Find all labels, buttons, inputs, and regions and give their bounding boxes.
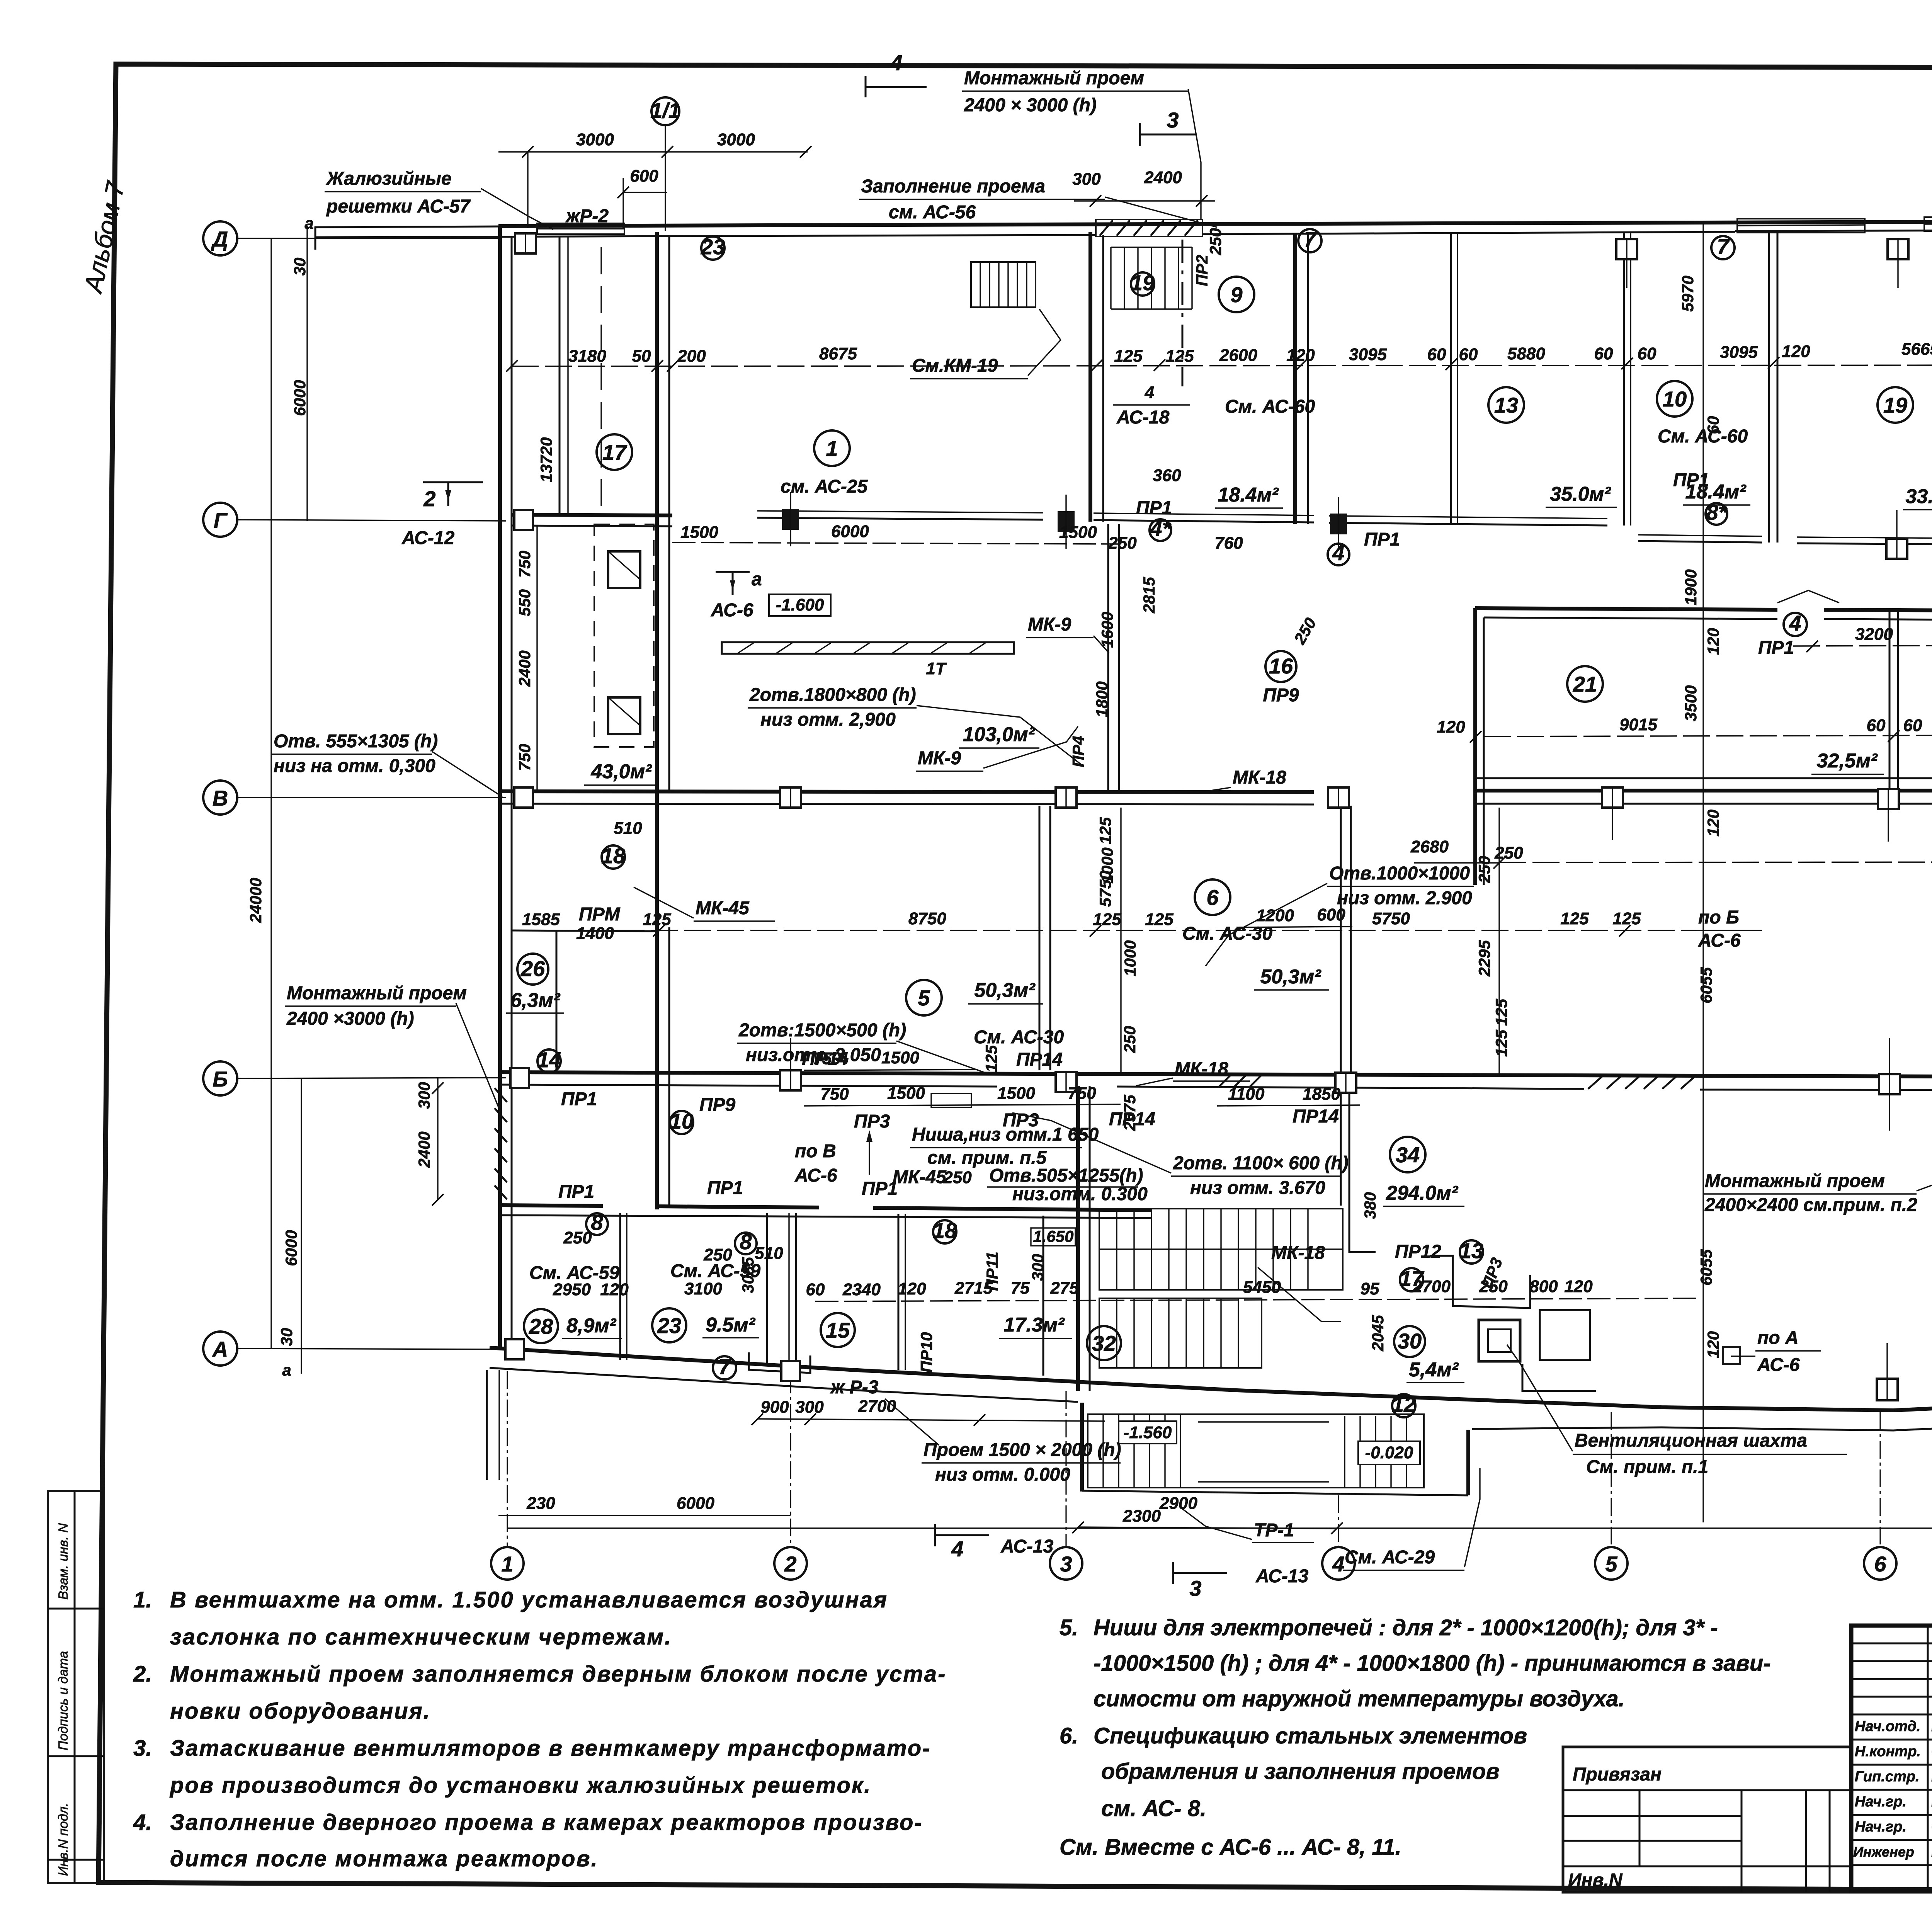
svg-text:АС-13: АС-13 bbox=[1000, 1536, 1054, 1557]
south entrance annex walls bbox=[487, 1370, 1468, 1495]
svg-text:ПРМ: ПРМ bbox=[579, 904, 621, 925]
отв 1000х1000 annotation bbox=[1206, 863, 1474, 966]
svg-text:600: 600 bbox=[630, 167, 658, 185]
svg-text:5: 5 bbox=[1605, 1552, 1617, 1576]
svg-text:13720: 13720 bbox=[537, 437, 555, 483]
21 band dimension chain 3200 2500 4000 bbox=[1793, 621, 1932, 652]
svg-text:низ отм. 2.900: низ отм. 2.900 bbox=[1337, 888, 1472, 908]
small rooms band wall y3130 bbox=[500, 1205, 1151, 1218]
svg-text:12: 12 bbox=[1392, 1392, 1416, 1417]
section mark а АС-6 bbox=[711, 569, 762, 621]
svg-text:5450: 5450 bbox=[1243, 1278, 1281, 1297]
svg-text:19: 19 bbox=[1131, 270, 1155, 295]
svg-text:17: 17 bbox=[602, 440, 628, 464]
svg-text:6,3м²: 6,3м² bbox=[510, 989, 561, 1012]
svg-text:ПР11: ПР11 bbox=[983, 1252, 1001, 1291]
svg-text:3000: 3000 bbox=[576, 130, 614, 149]
svg-text:Проем 1500 × 2000 (h): Проем 1500 × 2000 (h) bbox=[923, 1440, 1121, 1460]
svg-text:3100: 3100 bbox=[684, 1279, 722, 1298]
chain 1100 1850 bbox=[1217, 1085, 1360, 1106]
room circle 6 bbox=[1182, 879, 1329, 990]
svg-text:60: 60 bbox=[1903, 716, 1922, 735]
svg-text:275: 275 bbox=[1050, 1279, 1079, 1298]
svg-text:а: а bbox=[752, 569, 762, 590]
opening circle 18b bbox=[917, 1218, 1001, 1372]
section mark 4 top bbox=[866, 51, 927, 97]
opening circle 14 bbox=[537, 1048, 597, 1109]
area labels 21 band bbox=[1811, 745, 1932, 774]
svg-text:2отв:1500×500 (h): 2отв:1500×500 (h) bbox=[738, 1020, 906, 1041]
svg-text:ПР14: ПР14 bbox=[1293, 1106, 1339, 1127]
opening circle 12 bbox=[1392, 1392, 1416, 1417]
см АС-29 annotation bbox=[1343, 1468, 1480, 1570]
svg-text:6000: 6000 bbox=[831, 522, 869, 541]
103.0 area bbox=[959, 723, 1039, 748]
svg-text:Cм. прим. п.1: Cм. прим. п.1 bbox=[1586, 1457, 1708, 1477]
svg-text:1.: 1. bbox=[133, 1587, 152, 1612]
svg-text:103,0м²: 103,0м² bbox=[963, 723, 1036, 746]
svg-text:а: а bbox=[282, 1361, 291, 1379]
svg-text:3: 3 bbox=[1189, 1576, 1201, 1600]
проем 1500х2000 annotation bbox=[922, 1440, 1121, 1485]
монтажный проем west annotation bbox=[285, 983, 499, 1109]
wall x2880 Г-В bbox=[1108, 524, 1119, 792]
svg-text:2340: 2340 bbox=[842, 1280, 881, 1299]
svg-text:21: 21 bbox=[1573, 672, 1597, 696]
svg-text:ПР2: ПР2 bbox=[1193, 255, 1211, 286]
svg-text:9.5м²: 9.5м² bbox=[706, 1314, 756, 1336]
svg-text:125: 125 bbox=[1492, 1029, 1510, 1057]
МК-45 corridor annotation bbox=[579, 887, 775, 925]
svg-text:2295: 2295 bbox=[1475, 940, 1493, 977]
svg-text:ПР14: ПР14 bbox=[802, 1049, 848, 1069]
svg-text:8: 8 bbox=[740, 1230, 752, 1254]
svg-text:Cм. АС-30: Cм. АС-30 bbox=[974, 1027, 1064, 1048]
svg-text:60: 60 bbox=[1459, 345, 1478, 364]
svg-text:1500: 1500 bbox=[881, 1048, 919, 1067]
svg-text:4: 4 bbox=[890, 51, 902, 75]
svg-text:МК-9: МК-9 bbox=[918, 748, 961, 769]
title block texts bbox=[1853, 1637, 1932, 1886]
svg-text:2400: 2400 bbox=[1144, 168, 1182, 187]
svg-text:Cм. АС-60: Cм. АС-60 bbox=[1658, 426, 1748, 447]
svg-text:Cм. АС-59: Cм. АС-59 bbox=[529, 1263, 619, 1283]
room circle 19 bbox=[1878, 387, 1913, 423]
svg-text:3500: 3500 bbox=[1682, 685, 1700, 721]
svg-text:2: 2 bbox=[423, 486, 435, 511]
svg-text:обрамления и заполнения про: обрамления и заполнения проемов bbox=[1101, 1759, 1500, 1784]
svg-text:2400 × 3000 (h): 2400 × 3000 (h) bbox=[964, 95, 1097, 116]
svg-text:7: 7 bbox=[1717, 234, 1730, 259]
svg-text:Привязан: Привязан bbox=[1573, 1764, 1662, 1785]
svg-text:ПР14: ПР14 bbox=[1016, 1049, 1063, 1070]
svg-text:решетки АС-57: решетки АС-57 bbox=[326, 196, 471, 217]
svg-text:32,5м²: 32,5м² bbox=[1817, 750, 1878, 772]
wall x3470 В-Б bbox=[1341, 806, 1351, 1073]
svg-text:Инв.N подл.: Инв.N подл. bbox=[56, 1803, 71, 1876]
svg-text:60: 60 bbox=[806, 1280, 825, 1299]
svg-text:симости от наружной темпера: симости от наружной температуры воздуха. bbox=[1094, 1686, 1625, 1711]
svg-text:1600: 1600 bbox=[1098, 612, 1116, 648]
top 3000 chain bbox=[498, 130, 811, 228]
вентиляционная шахта annotation bbox=[1507, 1345, 1847, 1477]
chain 900 300 2700 bbox=[752, 1397, 1105, 1426]
svg-text:6: 6 bbox=[1874, 1552, 1886, 1576]
svg-text:300: 300 bbox=[415, 1082, 433, 1109]
svg-text:низ отм. 2,900: низ отм. 2,900 bbox=[760, 709, 896, 730]
ниша annotation bbox=[910, 1124, 1099, 1168]
dims 750 1500 left mid bbox=[804, 1045, 1000, 1072]
svg-text:120: 120 bbox=[1704, 810, 1722, 837]
svg-text:См. АС-60: См. АС-60 bbox=[1225, 396, 1315, 417]
svg-text:120: 120 bbox=[898, 1279, 926, 1298]
axis 1/1 circle bbox=[650, 97, 680, 231]
svg-text:ПР1: ПР1 bbox=[561, 1089, 597, 1109]
svg-text:низ на отм. 0,300: низ на отм. 0,300 bbox=[274, 756, 435, 776]
level box 1.650 bbox=[1031, 1227, 1075, 1246]
svg-text:3200: 3200 bbox=[1855, 625, 1893, 644]
wall stairs right x3368 bbox=[1295, 233, 1308, 524]
partition 28|23 bbox=[620, 1213, 627, 1360]
svg-text:5970: 5970 bbox=[1679, 276, 1697, 311]
svg-text:23: 23 bbox=[657, 1313, 681, 1338]
vertical dim chain x4408 bbox=[1679, 224, 1722, 1522]
svg-text:250: 250 bbox=[1475, 856, 1493, 883]
svg-text:Монтажный проем: Монтажный проем bbox=[964, 68, 1144, 88]
svg-text:120: 120 bbox=[1704, 628, 1722, 655]
svg-text:4: 4 bbox=[1332, 1552, 1344, 1576]
svg-text:1/1: 1/1 bbox=[650, 98, 680, 122]
svg-text:250: 250 bbox=[943, 1168, 972, 1187]
svg-text:4.: 4. bbox=[133, 1810, 152, 1835]
niche chain y2860 bbox=[804, 1084, 1121, 1107]
annotation монтажный проем top bbox=[962, 68, 1201, 219]
svg-text:120: 120 bbox=[1564, 1277, 1593, 1296]
svg-text:230: 230 bbox=[526, 1494, 555, 1513]
svg-text:3095: 3095 bbox=[1720, 343, 1758, 362]
svg-text:760: 760 bbox=[1214, 534, 1243, 553]
svg-text:ПР10: ПР10 bbox=[917, 1332, 935, 1373]
svg-text:Инв.N: Инв.N bbox=[1568, 1870, 1623, 1891]
svg-text:1.650: 1.650 bbox=[1033, 1227, 1073, 1245]
svg-text:Cм. Вместе с АС-6 ... АС- 8,: Cм. Вместе с АС-6 ... АС- 8, 11. bbox=[1060, 1835, 1401, 1860]
svg-text:125: 125 bbox=[643, 910, 671, 929]
svg-text:ров производится до установ: ров производится до установки жалюзийных… bbox=[169, 1773, 871, 1798]
svg-text:1000: 1000 bbox=[1121, 940, 1139, 976]
svg-text:ТР-1: ТР-1 bbox=[1254, 1520, 1294, 1541]
svg-text:2045: 2045 bbox=[1369, 1315, 1387, 1352]
svg-text:1800: 1800 bbox=[1093, 681, 1111, 717]
svg-text:4: 4 bbox=[1332, 541, 1344, 565]
svg-text:5: 5 bbox=[918, 986, 930, 1010]
svg-text:Заполнение дверного проема: Заполнение дверного проема в камерах реа… bbox=[170, 1810, 923, 1835]
exterior stair ТР-1 treads bbox=[1088, 1414, 1424, 1488]
vertical dim chain x2901 bbox=[1096, 808, 1139, 1074]
svg-text:-1.560: -1.560 bbox=[1124, 1423, 1172, 1442]
opening circle 13 bbox=[1459, 1238, 1506, 1291]
svg-text:60: 60 bbox=[1867, 716, 1886, 735]
opening circles on room band wall bbox=[558, 1178, 898, 1264]
svg-text:60: 60 bbox=[1594, 344, 1613, 363]
svg-text:120: 120 bbox=[1437, 718, 1465, 736]
svg-text:75: 75 bbox=[1011, 1279, 1030, 1298]
svg-text:1Т: 1Т bbox=[926, 659, 947, 678]
svg-text:1000: 1000 bbox=[1098, 847, 1116, 883]
svg-text:МК-18: МК-18 bbox=[1233, 767, 1286, 788]
thin wall 13|10 x4210 bbox=[1624, 233, 1631, 526]
svg-text:ПР1: ПР1 bbox=[1136, 498, 1172, 518]
svg-text:250: 250 bbox=[1494, 844, 1523, 862]
svg-text:17.3м²: 17.3м² bbox=[1004, 1314, 1065, 1336]
svg-text:3095: 3095 bbox=[1349, 345, 1387, 364]
по Б АС-6 bbox=[1696, 907, 1762, 951]
rooms 5|6 partition bbox=[1039, 806, 1050, 1070]
top annotation жалюзийные решетки bbox=[325, 168, 553, 230]
svg-text:4*: 4* bbox=[1150, 516, 1172, 541]
svg-text:6055: 6055 bbox=[1697, 1249, 1715, 1286]
svg-text:Нач.гр.: Нач.гр. bbox=[1855, 1819, 1906, 1835]
svg-text:60: 60 bbox=[1427, 345, 1446, 364]
svg-text:2680: 2680 bbox=[1410, 837, 1449, 856]
svg-text:Отв.1000×1000: Отв.1000×1000 bbox=[1329, 863, 1470, 884]
svg-text:5665: 5665 bbox=[1901, 340, 1932, 359]
axis row circles Д Г В Б А bbox=[203, 221, 237, 1366]
svg-text:2: 2 bbox=[784, 1552, 796, 1576]
svg-text:Отв. 555×1305 (h): Отв. 555×1305 (h) bbox=[274, 731, 438, 752]
svg-text:ж Р-3: ж Р-3 bbox=[830, 1377, 879, 1398]
hatched opening in north wall (заполнение проема) bbox=[1096, 219, 1202, 236]
svg-text:750: 750 bbox=[1068, 1084, 1096, 1103]
svg-text:-1.600: -1.600 bbox=[776, 595, 824, 614]
svg-text:4: 4 bbox=[951, 1537, 963, 1561]
opening circles top wall bbox=[701, 222, 1932, 296]
svg-text:дится после монтажа реактор: дится после монтажа реакторов. bbox=[170, 1846, 599, 1871]
svg-text:А: А bbox=[212, 1337, 228, 1361]
отв 1500х500 annotation bbox=[737, 1020, 989, 1074]
chain 1500 6000 1500 below Г bbox=[672, 522, 1121, 544]
svg-text:5880: 5880 bbox=[1507, 344, 1545, 363]
see АС-60 label room 9 bbox=[1225, 396, 1315, 417]
svg-text:120: 120 bbox=[1782, 342, 1810, 361]
svg-text:120: 120 bbox=[1704, 1331, 1722, 1358]
svg-text:750: 750 bbox=[515, 744, 534, 771]
МК-18 right labels bbox=[1206, 767, 1325, 1263]
opening circle 10 corridor bbox=[670, 1095, 736, 1134]
sill opening circles and labels bbox=[1108, 459, 1932, 567]
svg-text:900: 900 bbox=[760, 1398, 789, 1417]
svg-text:16: 16 bbox=[1269, 654, 1293, 678]
room circle 10 bbox=[1657, 381, 1748, 447]
svg-text:2.: 2. bbox=[133, 1662, 152, 1687]
svg-text:10: 10 bbox=[1663, 387, 1687, 411]
по А АС-6 bbox=[1731, 1328, 1821, 1375]
room circle 28 bbox=[524, 1309, 622, 1343]
bottom dim line 66000 bbox=[507, 1502, 1932, 1528]
notes middle column bbox=[1060, 1615, 1771, 1860]
rotated dims near stairs top band bbox=[1029, 577, 1387, 1352]
svg-text:750: 750 bbox=[820, 1085, 849, 1104]
svg-text:18: 18 bbox=[601, 844, 626, 868]
svg-text:18.4м²: 18.4м² bbox=[1685, 481, 1747, 503]
ПР14 МК-18 labels top of Б bbox=[802, 1049, 1250, 1086]
bottom dim chain 230/6000 bbox=[498, 1494, 1197, 1515]
svg-text:Затаскивание вентиляторов в: Затаскивание вентиляторов в венткамеру т… bbox=[170, 1736, 931, 1761]
svg-text:6.: 6. bbox=[1060, 1723, 1078, 1748]
svg-text:АС-18: АС-18 bbox=[1116, 407, 1170, 428]
opening circle 18 bbox=[601, 819, 642, 869]
svg-text:125: 125 bbox=[1114, 347, 1143, 366]
svg-text:ПР1: ПР1 bbox=[1758, 638, 1794, 658]
svg-text:АС-6: АС-6 bbox=[1757, 1355, 1800, 1375]
svg-text:10: 10 bbox=[670, 1109, 694, 1133]
room circle 23 bbox=[652, 1308, 686, 1342]
svg-text:1500: 1500 bbox=[1059, 523, 1097, 542]
corridor wall x1700 bbox=[657, 232, 669, 1209]
svg-text:300: 300 bbox=[1072, 170, 1101, 189]
room 21 left wall bbox=[1475, 608, 1484, 885]
bottom axis circles 1-8 bbox=[491, 1547, 1932, 1580]
svg-text:250: 250 bbox=[563, 1228, 592, 1247]
room circle 30 bbox=[1394, 1326, 1464, 1383]
svg-text:1900: 1900 bbox=[1682, 569, 1700, 605]
room circle 9 bbox=[1219, 277, 1254, 312]
svg-text:34: 34 bbox=[1396, 1143, 1420, 1167]
hatched монтажный проем 2400х2400 in Б wall bbox=[1588, 1077, 1695, 1089]
ЖР-3 label bbox=[830, 1377, 939, 1445]
svg-text:ПР1: ПР1 bbox=[707, 1178, 743, 1198]
АС-12 label left bbox=[401, 528, 455, 548]
north wall axis Д bbox=[315, 220, 1932, 250]
svg-text:6000: 6000 bbox=[291, 380, 309, 416]
svg-text:новки оборудования.: новки оборудования. bbox=[170, 1699, 431, 1724]
svg-text:7: 7 bbox=[1304, 227, 1317, 252]
43.0 area bbox=[584, 760, 659, 785]
svg-text:а: а bbox=[304, 214, 313, 232]
по В АС-6 bbox=[794, 1130, 872, 1186]
svg-text:2300: 2300 bbox=[1122, 1507, 1161, 1526]
svg-text:35.0м²: 35.0м² bbox=[1550, 483, 1612, 505]
svg-text:АС-6: АС-6 bbox=[794, 1165, 837, 1186]
svg-text:510: 510 bbox=[614, 819, 642, 838]
см КМ-19 bbox=[910, 309, 1061, 379]
top dimension chain bbox=[512, 338, 1932, 366]
svg-text:Гип.стр.: Гип.стр. bbox=[1855, 1769, 1920, 1785]
tick marks top chain bbox=[506, 355, 1932, 372]
svg-text:Жалюзийные: Жалюзийные bbox=[325, 168, 452, 189]
svg-text:19: 19 bbox=[1883, 393, 1907, 417]
svg-text:Ниша,низ отм.1 650: Ниша,низ отм.1 650 bbox=[912, 1124, 1099, 1145]
left margin stamp boxes bbox=[48, 1491, 104, 1883]
svg-text:-1000×1500 (h) ; для 4* - 10: -1000×1500 (h) ; для 4* - 1000×1800 (h) … bbox=[1094, 1651, 1771, 1676]
svg-text:2700: 2700 bbox=[858, 1397, 896, 1416]
svg-text:8675: 8675 bbox=[819, 344, 857, 363]
top stairwell treads bbox=[1111, 240, 1192, 386]
room circle 32 bbox=[1087, 1326, 1121, 1360]
svg-text:Спецификацию стальных элемен: Спецификацию стальных элементов bbox=[1094, 1723, 1527, 1748]
svg-text:ПР3: ПР3 bbox=[854, 1111, 890, 1132]
svg-text:Монтажный проем: Монтажный проем bbox=[287, 983, 467, 1003]
svg-text:125: 125 bbox=[1560, 909, 1589, 928]
svg-text:750: 750 bbox=[515, 551, 534, 578]
svg-text:ПР9: ПР9 bbox=[1263, 685, 1299, 706]
svg-text:800: 800 bbox=[1529, 1277, 1558, 1296]
отв 555х1305 annotation bbox=[272, 731, 502, 797]
svg-text:3: 3 bbox=[1060, 1552, 1072, 1576]
svg-text:9: 9 bbox=[1230, 282, 1242, 307]
room circle 17 bbox=[597, 434, 632, 470]
vertical dim chain x3880 bbox=[1475, 808, 1510, 1074]
svg-text:см. АС-56: см. АС-56 bbox=[889, 202, 976, 223]
section mark 2 left bbox=[423, 482, 483, 511]
section mark 4 АС-13 bottom bbox=[935, 1524, 1054, 1561]
vertical dim 13720 bbox=[537, 437, 555, 483]
room 30/12 walls bbox=[1349, 1206, 1596, 1391]
svg-text:125: 125 bbox=[982, 1045, 1000, 1072]
svg-text:МК-45: МК-45 bbox=[893, 1167, 947, 1187]
dims 1200 600 bbox=[1236, 905, 1352, 927]
svg-text:Монтажный проем заполняется д: Монтажный проем заполняется дверным блок… bbox=[170, 1662, 946, 1687]
ladder КМ-19 bbox=[971, 262, 1036, 307]
23890 chain bbox=[1410, 837, 1932, 869]
svg-text:5,4м²: 5,4м² bbox=[1409, 1359, 1459, 1381]
svg-text:низ отм. 0.000: низ отм. 0.000 bbox=[935, 1464, 1070, 1485]
opening circles 21 band bbox=[1758, 583, 1932, 658]
svg-text:250: 250 bbox=[1121, 1026, 1139, 1053]
svg-text:ПР14: ПР14 bbox=[1109, 1109, 1155, 1129]
svg-text:В: В bbox=[213, 786, 228, 810]
svg-text:30: 30 bbox=[277, 1328, 296, 1346]
svg-text:14: 14 bbox=[537, 1048, 561, 1072]
svg-text:23: 23 bbox=[701, 235, 725, 259]
left dim chain 24000 bbox=[247, 238, 271, 1349]
svg-text:360: 360 bbox=[1153, 466, 1181, 485]
svg-text:60: 60 bbox=[1638, 344, 1656, 363]
svg-text:294.0м²: 294.0м² bbox=[1386, 1182, 1459, 1204]
svg-text:17: 17 bbox=[1400, 1266, 1425, 1291]
svg-text:125: 125 bbox=[1096, 817, 1114, 844]
svg-text:5750: 5750 bbox=[1372, 909, 1410, 928]
svg-text:Подпись и дата: Подпись и дата bbox=[56, 1651, 71, 1750]
svg-text:7: 7 bbox=[718, 1354, 731, 1379]
svg-text:1200: 1200 bbox=[1256, 906, 1294, 925]
svg-text:3000: 3000 bbox=[717, 130, 755, 149]
interior stair flights bbox=[1099, 1209, 1343, 1368]
annotation заполнение проема bbox=[859, 176, 1217, 227]
svg-text:300: 300 bbox=[1029, 1254, 1047, 1281]
svg-text:МК-18: МК-18 bbox=[1175, 1059, 1228, 1079]
wall 10|19 x4590 bbox=[1769, 232, 1777, 543]
west wall bbox=[500, 226, 512, 1349]
svg-text:550: 550 bbox=[515, 589, 534, 616]
svg-text:2400 ×3000 (h): 2400 ×3000 (h) bbox=[286, 1009, 414, 1029]
svg-text:30: 30 bbox=[1398, 1329, 1422, 1353]
svg-text:4: 4 bbox=[1789, 611, 1801, 635]
svg-text:-0.020: -0.020 bbox=[1365, 1443, 1413, 1462]
hatch on Б wall near stairs bbox=[1219, 1075, 1262, 1087]
svg-text:Взам. инв. N: Взам. инв. N bbox=[56, 1523, 71, 1600]
wall 21|27 bbox=[1889, 611, 1898, 791]
svg-text:2815: 2815 bbox=[1140, 577, 1158, 614]
svg-text:по А: по А bbox=[1757, 1328, 1799, 1348]
8750 mid chain bbox=[518, 909, 1700, 943]
svg-text:43,0м²: 43,0м² bbox=[591, 760, 653, 783]
wall x3490 Б-А vertical (stair block left) bbox=[1078, 1086, 1090, 1391]
svg-text:200: 200 bbox=[677, 347, 706, 366]
top 600 chain bbox=[617, 167, 667, 228]
level box -1.560 bbox=[1119, 1421, 1177, 1444]
svg-text:ПР1: ПР1 bbox=[1364, 529, 1400, 550]
room circle 34 bbox=[1383, 1137, 1464, 1206]
